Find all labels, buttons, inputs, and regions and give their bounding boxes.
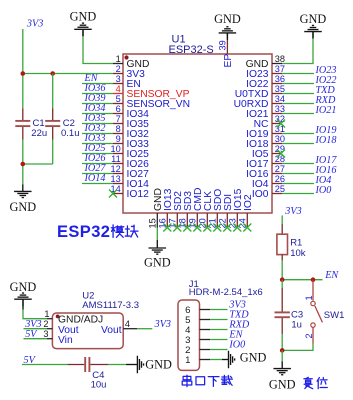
- junction C3/SW1 ground node: [280, 348, 285, 353]
- U1 pin 19 (CMD) stub: [188, 188, 204, 229]
- ground GND bottom-left: [9, 191, 36, 214]
- svg-text:IO0: IO0: [315, 185, 332, 196]
- svg-text:4: 4: [116, 84, 121, 94]
- U1 pin 34 (U0RXD) stub: [234, 94, 285, 110]
- U2 pin 1 stub: [44, 309, 103, 325]
- capacitor C1: [15, 109, 30, 140]
- U1 pin 24 (IO2) stub: [238, 194, 254, 228]
- U1 pin 39 (EP) stub: [218, 40, 234, 68]
- U1 pin 6 (IO34) stub: [113, 104, 149, 120]
- svg-text:1: 1: [44, 309, 49, 319]
- svg-text:3V3: 3V3: [284, 206, 301, 217]
- junction SW1/EN: [311, 277, 316, 282]
- svg-text:GND: GND: [214, 12, 241, 26]
- svg-text:HDR-M-2.54_1x6: HDR-M-2.54_1x6: [189, 287, 263, 298]
- svg-text:GND: GND: [10, 280, 37, 294]
- U1 pin 21 (SDO) stub: [208, 189, 224, 229]
- svg-text:GND: GND: [300, 12, 327, 26]
- resistor R1: [277, 224, 288, 261]
- svg-text:11: 11: [111, 154, 121, 164]
- ground stub above pin39: [226, 33, 228, 36]
- svg-text:5V: 5V: [25, 329, 38, 340]
- wire net IO21 from U1 pin 33: [282, 113, 314, 115]
- wire net IO26 to U1 pin 11: [82, 163, 113, 165]
- U1 pin 30 (IO18) stub: [246, 134, 285, 150]
- wire net IO16 from U1 pin 27: [282, 173, 314, 175]
- U1 pin 17 (SD2) stub: [168, 191, 184, 229]
- U1 pin 23 (IO15) stub: [228, 188, 244, 228]
- U1 pin 18 (SD3) stub: [178, 191, 194, 229]
- svg-text:0.1u: 0.1u: [61, 128, 80, 139]
- svg-text:34: 34: [275, 94, 285, 104]
- wire net IO27 to U1 pin 12: [82, 173, 113, 175]
- svg-text:3V3: 3V3: [154, 319, 171, 330]
- U1 pin 32 (NC) stub: [254, 114, 285, 130]
- wire C2 bottom down: [52, 140, 54, 165]
- junction R1/C3/EN: [280, 277, 285, 282]
- connector J1 body: [178, 300, 200, 370]
- U1 pin 11 (IO26) stub: [111, 154, 149, 170]
- svg-text:33: 33: [275, 104, 285, 114]
- svg-text:GND: GND: [144, 256, 171, 270]
- no-connect X on U1 pin 23: [233, 224, 241, 232]
- wire net IO23 from U1 pin 37: [282, 73, 314, 75]
- wire net IO22 from U1 pin 36: [282, 83, 314, 85]
- svg-text:IO12: IO12: [127, 189, 150, 200]
- voltage regulator U2 body: [52, 313, 123, 349]
- svg-text:EN: EN: [324, 270, 339, 281]
- no-connect X on U1 pin 24: [243, 224, 251, 232]
- svg-text:IO14: IO14: [84, 173, 106, 184]
- wire 5V to U2 pin 3: [24, 338, 48, 340]
- ground stub bottom-right: [281, 361, 283, 368]
- wire J1 pin 5 to net TXD: [210, 319, 227, 321]
- no-connect X on U1 pin 32: [277, 120, 285, 128]
- wire C3 bottom to ground node: [281, 334, 283, 350]
- U1 pin 36 (IO22) stub: [246, 74, 285, 90]
- no-connect X on U1 pin 21: [213, 224, 221, 232]
- ground stub top-right: [312, 32, 314, 38]
- wire 3V3 to U2 pin 2: [24, 328, 48, 330]
- wire C4 to ground: [108, 364, 126, 366]
- wire J1 pin 6 to net 3V3: [210, 309, 227, 311]
- svg-text:30: 30: [275, 134, 285, 144]
- svg-text:AMS1117-3.3: AMS1117-3.3: [82, 300, 139, 311]
- svg-text:3: 3: [43, 329, 48, 339]
- ground GND at J1 pin 1: [229, 351, 267, 369]
- svg-text:SW1: SW1: [324, 310, 345, 321]
- svg-text:37: 37: [275, 64, 285, 74]
- svg-text:15: 15: [148, 218, 158, 228]
- wire U2 pin 4 to 3V3 label: [137, 328, 152, 330]
- ground GND below U1: [144, 248, 171, 270]
- svg-text:3V3: 3V3: [26, 19, 43, 30]
- U1 pin 26 (IO4) stub: [252, 174, 285, 190]
- svg-text:7: 7: [116, 114, 121, 124]
- no-connect X on U1 pin 17: [173, 224, 181, 232]
- svg-text:GND: GND: [269, 377, 296, 391]
- svg-text:3: 3: [116, 74, 121, 84]
- wire U1 pin 2 to 3V3 rail: [23, 73, 113, 75]
- svg-text:1: 1: [304, 295, 314, 300]
- wire U1 pin 1 to ground: [83, 36, 113, 63]
- svg-text:4: 4: [125, 319, 130, 329]
- capacitor C4: [68, 357, 109, 372]
- U1 pin 10 (IO25) stub: [110, 144, 149, 160]
- U1 pin 28 (IO17) stub: [246, 154, 285, 170]
- wire net TXD from U1 pin 35: [282, 93, 314, 95]
- J1 pin 1 stub: [185, 355, 210, 366]
- svg-text:GND: GND: [240, 351, 267, 365]
- J1 pin 5 stub: [185, 315, 210, 326]
- wire net IO4 from U1 pin 26: [282, 183, 314, 185]
- title label ESP32 module (Chinese): [57, 223, 138, 241]
- wire net IO18 from U1 pin 30: [282, 143, 314, 145]
- wire net IO36 to U1 pin 4: [82, 93, 113, 95]
- svg-text:IO0: IO0: [228, 339, 245, 350]
- label serial download (Chinese): [182, 375, 232, 386]
- svg-text:1u: 1u: [291, 319, 302, 330]
- capacitor C3: [275, 280, 290, 334]
- ground stub right of C4: [126, 364, 137, 366]
- wire J1 pin 1 to ground: [210, 359, 222, 361]
- wire net IO34 to U1 pin 6: [82, 113, 113, 115]
- svg-text:2: 2: [304, 333, 314, 338]
- svg-text:GND: GND: [9, 200, 36, 214]
- ground GND top-left: [70, 10, 97, 37]
- wire SW1 bottom to ground node: [282, 344, 313, 351]
- U1 pin 29 (IO5) stub: [252, 144, 285, 160]
- svg-text:12: 12: [110, 164, 120, 174]
- wire 5V rail to C4: [22, 364, 68, 366]
- no-connect X on U1 pin 18: [183, 224, 191, 232]
- U2 pin 4 stub: [101, 319, 137, 336]
- svg-text:25: 25: [275, 184, 285, 194]
- switch SW1: [311, 280, 323, 344]
- wire U1 pin 15 to ground: [156, 228, 158, 241]
- wire net IO32 to U1 pin 8: [82, 133, 113, 135]
- U1 pin 22 (SDI) stub: [218, 194, 234, 229]
- svg-text:EP: EP: [223, 54, 234, 68]
- ground stub right of J1 pin1: [222, 359, 229, 361]
- svg-text:10k: 10k: [290, 248, 306, 259]
- no-connect X on U1 pin 19: [193, 224, 201, 232]
- wire net IO33 to U1 pin 9: [82, 143, 113, 145]
- U1 pin 7 (IO35) stub: [113, 114, 149, 130]
- junction C1/C2 ground node: [21, 162, 26, 167]
- svg-text:IO18: IO18: [315, 135, 337, 146]
- svg-text:26: 26: [275, 174, 285, 184]
- U1 pin 25 (IO0) stub: [252, 184, 285, 200]
- svg-text:Vin: Vin: [58, 335, 73, 346]
- J1 pin 4 stub: [185, 325, 210, 336]
- svg-text:27: 27: [275, 164, 285, 174]
- U1 pin 12 (IO27) stub: [110, 164, 149, 180]
- junction C2 branch: [50, 71, 55, 76]
- wire net IO19 from U1 pin 31: [282, 133, 314, 135]
- U1 pin-1 marker dot: [124, 55, 128, 59]
- wire J1 pin 2 to net IO0: [210, 349, 227, 351]
- no-connect X on U1 pin 14: [109, 190, 117, 198]
- wire R1 bottom to EN node: [281, 261, 283, 280]
- U2 pin-1 marker dot: [56, 315, 60, 319]
- ground stub bottom-left: [22, 184, 24, 191]
- svg-text:GND: GND: [70, 10, 97, 24]
- ground stub above U2 wire: [22, 299, 24, 309]
- wire J1 pin 4 to net RXD: [210, 329, 227, 331]
- svg-text:39: 39: [218, 40, 228, 50]
- U1 pin 38 (GND) stub: [246, 54, 285, 70]
- no-connect X on U1 pin 16: [163, 224, 171, 232]
- U1 pin 15 (GND) stub: [148, 188, 164, 228]
- U1 pin 37 (IO23) stub: [246, 64, 285, 80]
- U1 pin 14 (IO12) stub: [110, 184, 149, 200]
- ground GND right of C4: [137, 356, 172, 374]
- J1 pin 3 stub: [185, 335, 210, 346]
- svg-text:10: 10: [110, 144, 120, 154]
- svg-text:1: 1: [116, 54, 121, 64]
- svg-text:22u: 22u: [31, 128, 47, 139]
- wire net IO17 from U1 pin 28: [282, 163, 314, 165]
- label reset (Chinese): [304, 377, 327, 388]
- svg-text:38: 38: [275, 54, 285, 64]
- svg-text:6: 6: [116, 104, 121, 114]
- svg-text:13: 13: [110, 174, 120, 184]
- wire net IO35 to U1 pin 7: [82, 123, 113, 125]
- svg-text:IO2: IO2: [243, 194, 254, 211]
- wire U1 pin 39 to ground: [226, 36, 228, 40]
- no-connect X on U1 pin 20: [203, 224, 211, 232]
- wire net IO25 to U1 pin 10: [82, 153, 113, 155]
- svg-text:2: 2: [116, 64, 121, 74]
- wire 3V3 vertical rail: [22, 29, 24, 109]
- svg-text:IO21: IO21: [315, 105, 337, 116]
- wire 3V3 to R1: [281, 216, 283, 225]
- ground stub below pin 15: [156, 240, 158, 248]
- svg-text:IO0: IO0: [252, 189, 269, 200]
- no-connect X on U1 pin 22: [223, 224, 231, 232]
- U1 pin 4 (SENSOR_VP) stub: [113, 84, 190, 100]
- U1 pin 31 (IO19) stub: [246, 124, 285, 140]
- svg-text:2: 2: [43, 319, 48, 329]
- U1 pin 20 (CLK) stub: [198, 191, 214, 229]
- U1 pin 8 (IO32) stub: [113, 124, 149, 140]
- svg-text:ESP32: ESP32: [57, 223, 110, 241]
- wire net EN to U1 pin 3: [82, 83, 113, 85]
- ground GND bottom-right: [269, 369, 296, 392]
- svg-text:35: 35: [275, 84, 285, 94]
- svg-text:GND/ADJ: GND/ADJ: [58, 315, 103, 326]
- ground stub above pin1 wire: [82, 29, 84, 36]
- IC U1 ESP32-S body: [123, 54, 272, 213]
- U1 pin 27 (IO16) stub: [246, 164, 285, 180]
- J1 pin 2 stub: [185, 345, 210, 356]
- wire C2 bottom to C1 bottom: [23, 163, 53, 165]
- wire C2 branch vertical: [52, 74, 54, 109]
- U1 pin 16 (IO13) stub: [158, 188, 174, 228]
- J1 pin 6 stub: [185, 305, 210, 316]
- U1 pin 13 (IO14) stub: [110, 174, 149, 190]
- U1 pin 5 (SENSOR_VN) stub: [113, 94, 190, 110]
- svg-text:GND: GND: [145, 357, 172, 371]
- U1 pin 33 (IO21) stub: [246, 104, 285, 120]
- U1 pin 35 (U0TXD) stub: [235, 84, 285, 100]
- no-connect X on U1 pin 29: [277, 150, 285, 158]
- wire net RXD from U1 pin 34: [282, 103, 314, 105]
- svg-text:10u: 10u: [91, 380, 107, 391]
- svg-text:9: 9: [116, 134, 121, 144]
- junction 3V3 rail / pin2 wire: [21, 71, 26, 76]
- U1 pin 3 (EN) stub: [113, 74, 141, 90]
- wire to bottom-right ground: [281, 350, 283, 361]
- U1 pin 2 (3V3) stub: [113, 64, 145, 80]
- wire EN node horizontal: [282, 279, 322, 281]
- svg-text:1: 1: [185, 355, 190, 366]
- ground GND above U2: [10, 280, 37, 306]
- wire net IO14 to U1 pin 13: [82, 183, 113, 185]
- capacitor C2: [45, 109, 60, 140]
- ground GND above EP pin: [214, 12, 241, 40]
- svg-text:36: 36: [275, 74, 285, 84]
- wire U1 pin 38 to ground: [282, 38, 313, 64]
- wire net IO39 to U1 pin 5: [82, 103, 113, 105]
- wire ground to U2 pin 1: [23, 310, 47, 319]
- U1 pin 9 (IO33) stub: [113, 134, 149, 150]
- ground GND top-right: [300, 12, 327, 38]
- svg-text:8: 8: [116, 124, 121, 134]
- U1 pin 1 (GND) stub: [113, 54, 149, 70]
- wire J1 pin 3 to net EN: [210, 339, 227, 341]
- wire C1 bottom to ground: [22, 140, 24, 185]
- svg-text:Vout: Vout: [101, 325, 122, 336]
- svg-text:5: 5: [116, 94, 121, 104]
- U2 pin 2 stub: [43, 319, 78, 336]
- wire net IO0 from U1 pin 25: [282, 193, 314, 195]
- svg-text:ESP32-S: ESP32-S: [169, 44, 214, 56]
- U2 pin 3 stub: [43, 329, 73, 346]
